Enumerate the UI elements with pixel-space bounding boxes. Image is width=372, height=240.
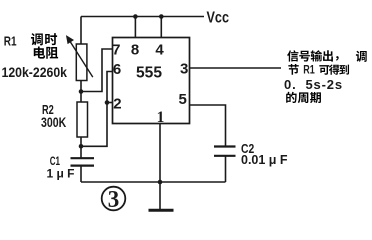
label R1 tiao (调)	[31, 33, 43, 45]
svg-text:555: 555	[136, 65, 162, 82]
junction dot ground rail	[158, 180, 163, 185]
resistor R1 wiper arrow	[67, 37, 93, 78]
svg-text:0. 5s-2s: 0. 5s-2s	[284, 77, 343, 92]
svg-text:5: 5	[179, 91, 187, 108]
svg-text:8: 8	[131, 42, 139, 59]
note char dao (到)	[339, 65, 349, 75]
label R1 dian (电)	[34, 46, 45, 58]
svg-text:120k-2260k: 120k-2260k	[2, 64, 68, 80]
svg-text:6: 6	[113, 61, 121, 78]
note char chu (出)	[323, 50, 333, 61]
svg-text:3: 3	[108, 186, 120, 213]
svg-text:0.01 μ F: 0.01 μ F	[241, 153, 288, 167]
note char hao (号)	[299, 51, 310, 62]
svg-text:2: 2	[113, 96, 121, 113]
note char ke (可)	[319, 65, 329, 75]
wire pin 2 node down to C1 node	[81, 103, 107, 147]
wire pin 2 stub	[107, 102, 113, 104]
node R2/C1/pin2 junction	[79, 144, 84, 149]
capacitor C2 plates	[214, 147, 236, 156]
note char di (的)	[286, 92, 296, 103]
note char jie (节)	[288, 64, 298, 75]
wire R2 bottom lead	[80, 137, 82, 146]
node R1/R2/pin7 junction	[79, 89, 84, 94]
junction dot pin8/Vcc	[133, 14, 138, 19]
wire pin 3 output	[190, 67, 282, 69]
note char de (得)	[329, 64, 339, 74]
wire Vcc top rail	[81, 16, 204, 18]
note char zhou (周)	[298, 92, 309, 103]
svg-text:R1: R1	[4, 34, 17, 48]
wire ground bottom rail	[81, 181, 226, 183]
note char qi (期)	[310, 92, 321, 103]
resistor R1 body (adjustable)	[76, 44, 87, 81]
wire C1 bottom lead to ground rail	[80, 166, 82, 182]
svg-text:7: 7	[112, 42, 120, 59]
wire pin 5 to C2	[190, 105, 226, 146]
svg-text:1: 1	[157, 109, 165, 126]
wire pin 1 to ground rail	[159, 124, 161, 183]
junction dot pin4/Vcc	[159, 14, 164, 19]
ground symbol	[149, 182, 174, 210]
note char xin (信)	[287, 50, 298, 61]
resistor R2 body	[77, 102, 88, 137]
wire Vcc rail to pin 4	[160, 17, 162, 39]
wire C1 top lead	[80, 146, 82, 157]
svg-text:3: 3	[180, 61, 188, 78]
wire R2 top lead	[80, 92, 82, 103]
note char tiao (调)	[356, 51, 367, 62]
svg-text:1 μ F: 1 μ F	[47, 167, 75, 181]
svg-text:4: 4	[155, 42, 164, 59]
figure number 3 circled	[102, 186, 126, 213]
note comma	[336, 56, 339, 61]
capacitor C1 plates	[71, 158, 95, 165]
wire R1 bottom lead	[80, 81, 82, 92]
label R1 zu (阻)	[46, 47, 58, 59]
junction dot pin2/pin6	[105, 100, 110, 105]
svg-text:Vcc: Vcc	[207, 9, 230, 26]
svg-text:300K: 300K	[41, 114, 66, 130]
wire pin 7 to R1/R2 node	[81, 49, 113, 92]
wire Vcc rail to R1 top	[80, 17, 82, 45]
note char shu (输)	[311, 50, 323, 61]
wire pin 6 down to pin 2	[107, 72, 113, 103]
svg-text:R1: R1	[303, 62, 315, 76]
wire C2 bottom lead	[225, 156, 227, 182]
op-amp U1 555 IC box	[113, 38, 190, 124]
wire Vcc rail to pin 8	[134, 17, 136, 39]
label R1 shi (时)	[45, 33, 57, 45]
